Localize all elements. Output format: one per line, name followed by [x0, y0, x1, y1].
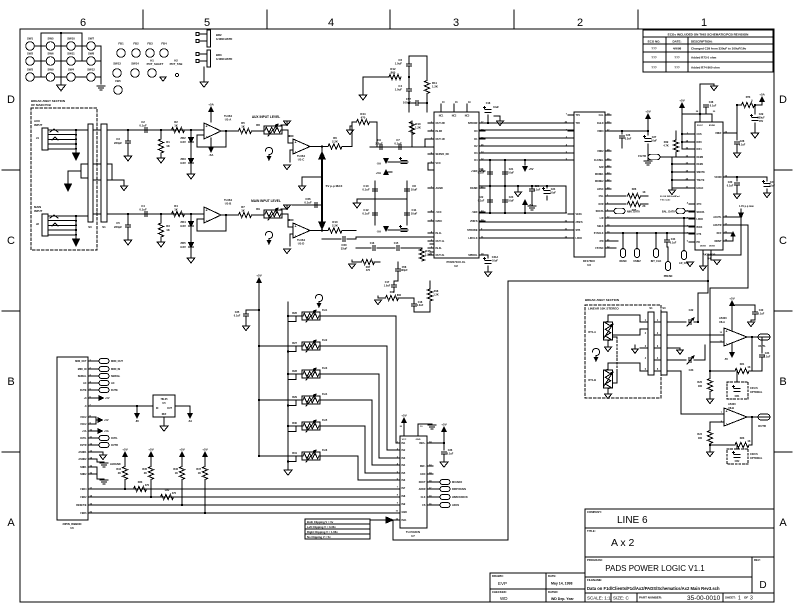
svg-text:1.0uF: 1.0uF	[417, 304, 424, 307]
svg-text:???: ???	[674, 66, 680, 70]
svg-text:CHLD: CHLD	[597, 122, 604, 125]
svg-text:HOLD: HOLD	[697, 187, 704, 190]
svg-text:SW4: SW4	[68, 68, 75, 72]
svg-text:U1-C: U1-C	[298, 158, 305, 162]
svg-text:POT_TAB: POT_TAB	[170, 62, 183, 66]
svg-text:MU/ADO: MU/ADO	[452, 481, 462, 484]
svg-text:Changed C29 from 330uF to 100u: Changed C29 from 330uF to 100uF/16v	[691, 47, 747, 51]
svg-text:5V p-p MAX: 5V p-p MAX	[326, 184, 343, 188]
svg-text:DEM0: DEM0	[697, 156, 704, 159]
svg-text:U1-B: U1-B	[225, 202, 232, 206]
svg-text:1K: 1K	[174, 124, 178, 128]
svg-text:MIDI_IN: MIDI_IN	[78, 368, 87, 371]
svg-text:1K: 1K	[241, 125, 245, 129]
svg-text:EVP: EVP	[498, 581, 507, 586]
svg-text:1.2K: 1.2K	[432, 85, 438, 89]
svg-text:Pot5: Pot5	[322, 419, 328, 422]
svg-text:REV:: REV:	[754, 558, 761, 562]
svg-text:R32: R32	[165, 489, 170, 492]
svg-text:470: 470	[361, 116, 366, 120]
svg-text:LRCK: LRCK	[697, 218, 704, 221]
svg-text:AGND: AGND	[436, 187, 444, 190]
svg-text:4: 4	[687, 202, 689, 205]
svg-text:470: 470	[172, 492, 177, 495]
svg-text:OVTR: OVTR	[80, 444, 87, 447]
svg-text:ASND1: ASND1	[78, 451, 87, 454]
svg-text:CTS: CTS	[697, 233, 702, 236]
svg-text:R8: R8	[256, 123, 260, 127]
svg-text:SW1: SW1	[27, 37, 34, 41]
svg-text:10: 10	[396, 511, 399, 513]
svg-text:+5V: +5V	[645, 110, 650, 114]
svg-text:CR1: CR1	[735, 395, 740, 398]
svg-text:Right Clipping V = 1.66v: Right Clipping V = 1.66v	[307, 530, 338, 534]
svg-text:0.1uF: 0.1uF	[534, 189, 541, 192]
svg-text:IN6: IN6	[402, 479, 406, 482]
svg-text:+5A: +5A	[208, 103, 214, 107]
svg-text:ECO NO.: ECO NO.	[648, 40, 661, 44]
svg-text:OUTR: OUTR	[758, 424, 766, 428]
svg-text:SW8: SW8	[88, 52, 95, 56]
svg-text:Pot6: Pot6	[322, 449, 328, 452]
svg-text:MAIN INPUT LEVEL: MAIN INPUT LEVEL	[251, 199, 281, 203]
svg-text:ADCS: ADCS	[452, 504, 459, 507]
svg-text:RT1-B: RT1-B	[588, 378, 596, 382]
svg-text:28: 28	[696, 111, 699, 113]
svg-text:6: 6	[687, 241, 689, 243]
svg-text:CLK: CLK	[421, 496, 426, 499]
svg-text:+5V: +5V	[256, 274, 261, 278]
svg-text:C18: C18	[486, 102, 491, 105]
svg-text:IN11: IN11	[402, 519, 408, 522]
svg-text:May 14, 1998: May 14, 1998	[551, 582, 572, 586]
svg-text:+5V: +5V	[401, 414, 406, 418]
svg-text:LINEAR 10K STEREO: LINEAR 10K STEREO	[588, 307, 619, 311]
svg-text:SW6: SW6	[47, 52, 54, 56]
svg-text:R37: R37	[196, 468, 201, 471]
svg-text:IN2: IN2	[402, 449, 406, 452]
svg-text:Y10 mode: Y10 mode	[660, 200, 671, 202]
svg-text:1: 1	[96, 127, 98, 130]
svg-text:0.1uF: 0.1uF	[670, 242, 677, 245]
svg-text:IN9: IN9	[402, 503, 406, 506]
svg-text:AOUTL: AOUTL	[713, 216, 722, 219]
svg-text:SW2: SW2	[27, 52, 34, 56]
svg-text:AC: AC	[111, 382, 115, 385]
svg-text:PD: PD	[697, 241, 701, 244]
svg-text:NC2: NC2	[452, 116, 457, 118]
svg-text:220pF: 220pF	[114, 141, 122, 145]
svg-text:A: A	[7, 517, 15, 529]
svg-text:GND: GND	[402, 511, 408, 514]
svg-text:OUT-1L: OUT-1L	[436, 240, 445, 243]
svg-text:SW9: SW9	[47, 68, 54, 72]
svg-text:FB1: FB1	[118, 42, 124, 46]
svg-text:DOUT: DOUT	[419, 481, 426, 484]
svg-text:256FS: 256FS	[576, 221, 583, 224]
svg-text:SELK: SELK	[597, 225, 604, 228]
svg-text:180: 180	[698, 385, 703, 388]
svg-text:C15: C15	[394, 242, 399, 245]
svg-text:1K: 1K	[166, 228, 170, 232]
svg-text:CLKSEL: CLKSEL	[594, 159, 604, 162]
svg-text:L/R: L/R	[600, 217, 604, 220]
svg-text:USINZ: USINZ	[633, 260, 641, 263]
svg-text:CR2 IS: CR2 IS	[750, 453, 758, 456]
svg-text:Data on F1d/Clients/F1d/Ax2/PA: Data on F1d/Clients/F1d/Ax2/PADS/Schemat…	[587, 586, 720, 591]
svg-text:+: +	[205, 209, 207, 213]
svg-text:860: 860	[397, 294, 402, 297]
svg-text:DATED:: DATED:	[548, 590, 558, 594]
svg-text:R73: R73	[746, 96, 751, 99]
svg-text:VCC2: VCC2	[80, 423, 87, 426]
svg-text:SERIAL: SERIAL	[111, 375, 121, 378]
svg-text:R31: R31	[292, 451, 297, 455]
svg-text:LINE 6: LINE 6	[617, 515, 648, 526]
svg-text:0.1uF: 0.1uF	[234, 315, 241, 318]
svg-text:GND: GND	[416, 439, 421, 441]
svg-text:U3: U3	[587, 263, 591, 267]
svg-text:OVTR: OVTR	[111, 444, 118, 447]
svg-text:2: 2	[96, 161, 98, 164]
svg-text:SCALE: 1:1: SCALE: 1:1	[587, 596, 611, 601]
svg-text:FB4: FB4	[161, 42, 167, 46]
svg-text:+8: +8	[84, 397, 87, 400]
svg-text:+5V: +5V	[679, 99, 684, 103]
svg-text:20: 20	[713, 111, 716, 113]
svg-text:DCF: DCF	[717, 232, 722, 235]
svg-text:REF-: REF-	[420, 465, 426, 468]
svg-text:VDD0: VDD0	[597, 130, 604, 133]
svg-text:3.6V: 3.6V	[180, 161, 186, 165]
svg-text:S0: S0	[662, 306, 666, 310]
svg-text:SIZE: C: SIZE: C	[613, 596, 630, 601]
svg-text:-5A: -5A	[529, 203, 534, 207]
svg-text:+5A: +5A	[104, 430, 109, 433]
svg-text:SND1: SND1	[80, 466, 87, 469]
svg-text:FED4: FED4	[80, 488, 87, 491]
svg-text:SW3: SW3	[27, 68, 34, 72]
svg-text:LRCK: LRCK	[576, 237, 583, 240]
svg-text:3: 3	[750, 596, 753, 602]
svg-text:MODE1: MODE1	[595, 173, 604, 176]
svg-text:INPUT: INPUT	[34, 209, 43, 213]
svg-text:U8-B: U8-B	[728, 406, 734, 410]
svg-text:1.0uF: 1.0uF	[395, 62, 403, 66]
svg-text:R27: R27	[292, 341, 297, 345]
svg-text:FSYNC: FSYNC	[595, 247, 603, 250]
svg-text:U2: U2	[454, 264, 458, 268]
svg-text:0: 0	[751, 100, 753, 103]
svg-text:SND2: SND2	[80, 473, 87, 476]
svg-text:AVSS: AVSS	[709, 245, 715, 248]
svg-text:256FS: 256FS	[470, 220, 478, 223]
svg-text:AVSS: AVSS	[700, 245, 706, 248]
svg-text:CAL: CAL	[599, 114, 604, 117]
svg-text:C16: C16	[370, 242, 375, 245]
svg-text:RESN: RESN	[620, 260, 627, 263]
svg-text:0.1uF: 0.1uF	[758, 313, 765, 316]
svg-text:20 OK WR 2xMPad: 20 OK WR 2xMPad	[660, 196, 680, 198]
svg-text:R33: R33	[138, 481, 143, 484]
svg-text:+5V: +5V	[122, 448, 127, 452]
svg-text:SW14: SW14	[131, 62, 139, 66]
svg-text:R30: R30	[292, 421, 297, 425]
svg-text:-5A: -5A	[209, 153, 215, 157]
svg-text:OUT-3R: OUT-3R	[436, 122, 445, 125]
svg-text:-8: -8	[84, 405, 87, 408]
svg-text:0.1uF: 0.1uF	[727, 185, 734, 188]
svg-text:3.6V: 3.6V	[180, 245, 186, 249]
svg-text:0.1uF: 0.1uF	[764, 356, 771, 359]
svg-text:Pot2: Pot2	[322, 339, 328, 342]
svg-text:DEM1: DEM1	[697, 163, 704, 166]
svg-text:RT1-A: RT1-A	[588, 330, 596, 334]
svg-text:HSBCK/IOCK: HSBCK/IOCK	[452, 496, 468, 499]
svg-text:BREAK AWAY SECTION: BREAK AWAY SECTION	[585, 298, 619, 302]
svg-text:LRSC: LRSC	[597, 188, 604, 191]
svg-text:2: 2	[645, 333, 647, 335]
svg-text:A5320: A5320	[719, 316, 727, 320]
svg-text:R23: R23	[740, 437, 745, 440]
svg-text:D1: D1	[474, 138, 478, 141]
svg-text:3.6V: 3.6V	[180, 224, 186, 228]
svg-text:VCC2: VCC2	[80, 416, 87, 419]
svg-text:2K: 2K	[144, 472, 147, 475]
svg-text:0.1uF: 0.1uF	[394, 142, 402, 146]
svg-text:9: 9	[566, 213, 568, 215]
svg-text:CS: CS	[422, 504, 426, 507]
svg-text:FILTR: FILTR	[638, 154, 646, 158]
svg-text:ASND2: ASND2	[78, 458, 87, 461]
svg-text:R28: R28	[292, 369, 297, 373]
svg-text:B: B	[779, 376, 786, 388]
svg-text:SHEET:: SHEET:	[725, 596, 736, 600]
svg-text:NC1: NC1	[439, 116, 444, 118]
svg-text:10: 10	[420, 426, 423, 428]
svg-text:1K: 1K	[747, 366, 750, 369]
svg-text:1K: 1K	[642, 191, 645, 194]
svg-text:STB: STB	[576, 229, 581, 232]
svg-text:A x 2: A x 2	[611, 537, 635, 549]
svg-text:R34: R34	[116, 468, 121, 471]
svg-text:IN: IN	[156, 408, 159, 410]
svg-text:0.1uF: 0.1uF	[447, 453, 454, 456]
svg-text:PART NUMBER:: PART NUMBER:	[639, 596, 662, 600]
svg-text:D4: D4	[474, 159, 478, 162]
svg-text:10uF: 10uF	[508, 200, 514, 203]
svg-text:6: 6	[80, 17, 86, 29]
svg-text:SW5: SW5	[47, 37, 54, 41]
svg-text:Pot3: Pot3	[322, 367, 328, 370]
svg-text:CKS: CKS	[697, 133, 702, 136]
svg-text:WD Dep. Year: WD Dep. Year	[551, 597, 574, 601]
svg-text:EOC: EOC	[420, 473, 425, 476]
svg-text:4/9/98: 4/9/98	[673, 47, 682, 51]
svg-text:-5A: -5A	[376, 230, 381, 234]
svg-text:REF+: REF+	[419, 442, 426, 445]
svg-text:33uF: 33uF	[341, 247, 348, 251]
svg-text:+: +	[205, 125, 207, 129]
svg-text:5: 5	[96, 211, 98, 214]
svg-text:1K: 1K	[174, 208, 178, 212]
svg-text:D2: D2	[474, 145, 478, 148]
svg-text:U5: U5	[162, 402, 166, 405]
svg-text:4.7K: 4.7K	[663, 145, 668, 148]
svg-text:J1: J1	[36, 136, 40, 140]
svg-text:SW10: SW10	[67, 37, 75, 41]
svg-text:+: +	[725, 330, 727, 334]
svg-text:SERVO_DC: SERVO_DC	[436, 153, 450, 156]
svg-text:R26: R26	[632, 188, 637, 191]
svg-text:10uF: 10uF	[769, 185, 775, 188]
svg-text:R9: R9	[256, 207, 260, 211]
svg-text:2K: 2K	[642, 205, 645, 208]
svg-text:860: 860	[391, 71, 396, 75]
svg-text:3.3uF: 3.3uF	[625, 138, 632, 141]
svg-text:STROBE: STROBE	[467, 229, 478, 232]
svg-text:???: ???	[651, 56, 657, 60]
svg-text:-VED: -VED	[472, 211, 478, 214]
svg-text:10uF: 10uF	[411, 188, 418, 192]
svg-text:IN3: IN3	[402, 457, 406, 460]
svg-text:OF: OF	[744, 596, 748, 600]
svg-text:CHECKED:: CHECKED:	[492, 590, 507, 594]
svg-text:IN-3L: IN-3L	[436, 247, 443, 250]
svg-text:+: +	[725, 410, 727, 414]
svg-text:C33: C33	[689, 368, 694, 372]
svg-text:+5V: +5V	[105, 397, 110, 400]
svg-text:2.2K: 2.2K	[332, 140, 338, 144]
svg-text:FB5: FB5	[115, 79, 121, 83]
svg-text:2.2uF: 2.2uF	[375, 142, 383, 146]
svg-text:0.1uF: 0.1uF	[478, 172, 485, 175]
svg-text:-VCC: -VCC	[436, 211, 442, 214]
svg-text:R36: R36	[173, 468, 178, 471]
svg-text:/PD: /PD	[600, 240, 604, 243]
svg-text:0.1uF: 0.1uF	[739, 144, 746, 147]
svg-text:9: 9	[397, 503, 399, 505]
svg-text:RESET/E: RESET/E	[76, 504, 87, 507]
svg-text:-: -	[206, 135, 208, 139]
svg-text:D3: D3	[474, 152, 478, 155]
svg-text:C: C	[779, 235, 787, 247]
svg-text:C32: C32	[689, 308, 694, 312]
svg-text:+5V: +5V	[729, 297, 734, 301]
svg-text:DGND: DGND	[470, 187, 478, 190]
svg-text:DUTE: DUTE	[111, 389, 118, 392]
svg-text:+5V: +5V	[104, 419, 109, 422]
svg-text:SMUTE: SMUTE	[697, 171, 706, 174]
svg-text:1.2K: 1.2K	[415, 126, 421, 130]
svg-text:16: 16	[455, 102, 458, 104]
svg-text:10uF: 10uF	[651, 140, 657, 143]
svg-text:PRESN: PRESN	[664, 275, 673, 278]
svg-text:NIKI_DATA: NIKI_DATA	[627, 211, 640, 214]
svg-text:10uF: 10uF	[411, 212, 418, 216]
svg-text:SERIAL: SERIAL	[78, 375, 87, 378]
svg-text:TITLE:: TITLE:	[587, 529, 596, 533]
svg-text:CR2: CR2	[735, 460, 740, 463]
svg-text:OUT-1R: OUT-1R	[436, 138, 445, 141]
svg-text:0.1uF: 0.1uF	[304, 201, 312, 205]
svg-text:BVDD: BVDD	[709, 125, 716, 127]
svg-text:20: 20	[400, 426, 403, 428]
svg-text:0.1uF: 0.1uF	[710, 105, 717, 108]
svg-text:0VDC: 0VDC	[436, 220, 443, 223]
svg-text:4: 4	[645, 357, 647, 360]
svg-text:BICK: BICK	[697, 226, 703, 229]
svg-text:OVR: OVR	[598, 203, 603, 206]
svg-text:+: +	[294, 225, 296, 229]
svg-text:10uF: 10uF	[493, 106, 499, 109]
svg-text:470: 470	[145, 484, 150, 487]
svg-text:1.0uF: 1.0uF	[395, 88, 403, 92]
svg-text:1K: 1K	[198, 472, 201, 475]
svg-text:FB2: FB2	[133, 42, 139, 46]
svg-text:IN-3R: IN-3R	[436, 130, 443, 133]
svg-text:+5V: +5V	[528, 167, 533, 171]
svg-text:MONT: MONT	[714, 240, 722, 243]
svg-text:+VED: +VED	[471, 170, 478, 173]
svg-text:IN-1L: IN-1L	[436, 232, 443, 235]
svg-text:1: 1	[701, 17, 707, 29]
svg-text:D: D	[7, 94, 15, 106]
svg-text:2: 2	[577, 17, 583, 29]
svg-text:10uF: 10uF	[550, 192, 556, 195]
svg-text:1.4V p-p max: 1.4V p-p max	[739, 205, 754, 208]
svg-text:S/W: S/W	[599, 166, 604, 169]
svg-text:0.1uF: 0.1uF	[139, 124, 147, 128]
svg-text:TSUTE: TSUTE	[697, 179, 705, 182]
svg-text:S1: S1	[649, 306, 653, 310]
svg-text:Both Clipping V = 0v: Both Clipping V = 0v	[307, 520, 334, 524]
svg-text:8: 8	[397, 495, 399, 497]
svg-text:DRAWN:: DRAWN:	[492, 574, 504, 578]
svg-text:-8V: -8V	[135, 419, 139, 423]
svg-text:Left Clipping V = 3.33v: Left Clipping V = 3.33v	[307, 525, 336, 529]
svg-text:4: 4	[328, 17, 334, 29]
svg-text:DVCC: DVCC	[697, 125, 704, 127]
svg-text:0.1uF: 0.1uF	[478, 200, 485, 203]
svg-text:OVL: OVL	[599, 195, 604, 198]
svg-text:3.6V: 3.6V	[180, 140, 186, 144]
svg-text:SW11: SW11	[67, 52, 75, 56]
svg-text:Added R73 0 ohm: Added R73 0 ohm	[691, 56, 717, 60]
svg-text:SW13: SW13	[113, 62, 121, 66]
svg-text:SPDIOR: SPDIOR	[468, 122, 478, 125]
svg-text:1K: 1K	[166, 144, 170, 148]
svg-text:-: -	[206, 219, 208, 223]
svg-text:No Clipping V = 5v: No Clipping V = 5v	[307, 535, 331, 539]
svg-text:D: D	[759, 580, 766, 591]
svg-text:10uF: 10uF	[492, 260, 498, 263]
svg-text:???: ???	[651, 47, 657, 51]
svg-text:IN4: IN4	[402, 464, 406, 467]
svg-text:C: C	[7, 235, 15, 247]
svg-text:OVFL: OVFL	[80, 437, 87, 440]
svg-text:DATE:: DATE:	[673, 40, 682, 44]
svg-text:AUX INPUT LEVEL: AUX INPUT LEVEL	[252, 115, 280, 119]
svg-text:16V: 16V	[759, 120, 764, 123]
svg-text:R20: R20	[697, 381, 702, 384]
svg-text:WD: WD	[500, 596, 508, 601]
svg-text:3: 3	[96, 177, 98, 180]
svg-text:OPTIONAL: OPTIONAL	[750, 457, 763, 460]
svg-text:U1-A: U1-A	[225, 118, 232, 122]
svg-text:+5V: +5V	[441, 423, 446, 427]
svg-text:DUTE: DUTE	[80, 389, 87, 392]
